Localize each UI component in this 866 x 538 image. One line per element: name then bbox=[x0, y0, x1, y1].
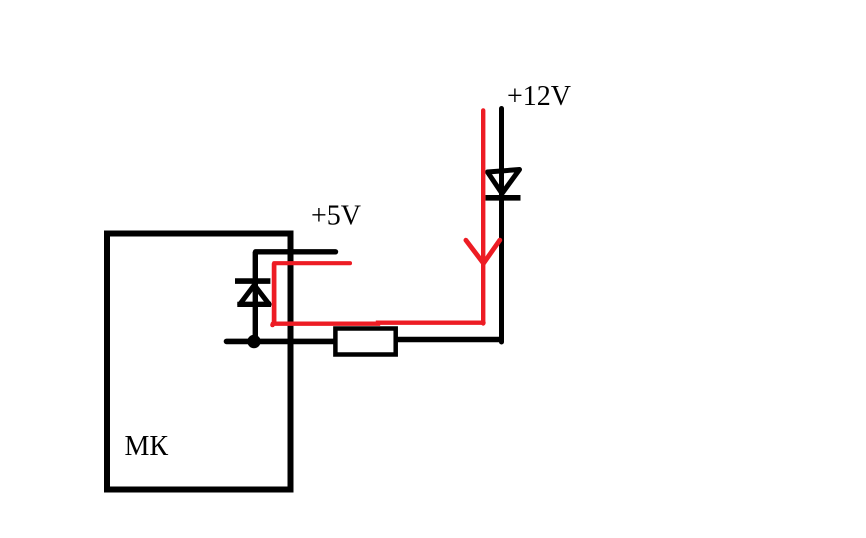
diode D1 (on +12V line, pointing down) bbox=[486, 170, 521, 198]
red wire: bottom horizontal run bbox=[273, 323, 484, 324]
resistor R1 bbox=[335, 329, 395, 355]
wire: zener branch vertical bbox=[253, 252, 258, 338]
wire: bottom horizontal, left of resistor bbox=[227, 339, 335, 345]
zener/protection diode D2 (pointing up) bbox=[235, 281, 271, 304]
svg-text:МК: МК bbox=[125, 431, 169, 462]
red wire: vertical from +12V bbox=[481, 110, 485, 323]
node junction dot bbox=[247, 335, 260, 348]
svg-text:+5V: +5V bbox=[311, 201, 361, 232]
wire: bottom horizontal, right of resistor bbox=[397, 337, 503, 342]
wire: +5V horizontal stub bbox=[256, 249, 336, 254]
red wire: top horizontal to +5V bbox=[274, 261, 350, 265]
wire: +12V vertical feed bbox=[499, 109, 504, 343]
red wire: cap blob at bottom-left corner bbox=[270, 323, 275, 328]
red wire: vertical at +5V branch bbox=[272, 263, 277, 323]
svg-text:+12V: +12V bbox=[507, 81, 571, 112]
red current arrowhead bbox=[466, 240, 500, 263]
MCU box МК bbox=[107, 234, 291, 490]
